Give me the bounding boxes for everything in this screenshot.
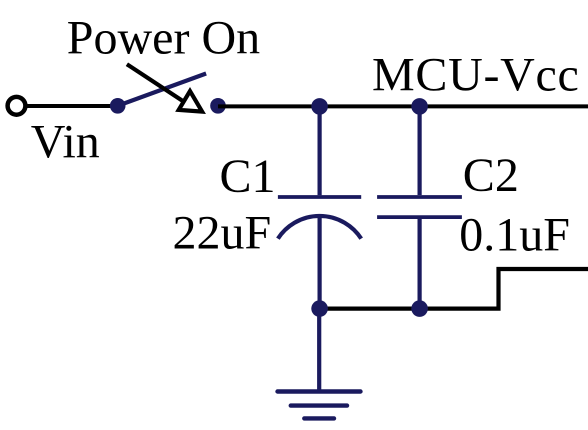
svg-text:22uF: 22uF	[173, 206, 272, 259]
junction dot C2 top	[411, 98, 428, 115]
terminal Vin	[8, 97, 26, 115]
svg-text:Vin: Vin	[31, 116, 100, 169]
switch actuation arrowhead	[179, 91, 202, 112]
switch S1 lever	[118, 74, 206, 106]
wire switch to MCU-Vcc rail	[218, 104, 588, 108]
svg-text:C2: C2	[463, 149, 519, 202]
junction dot C2 bottom	[411, 300, 428, 317]
wire ground bus with step to right edge	[320, 269, 588, 309]
svg-text:Power On: Power On	[67, 12, 260, 65]
wire Vin to switch	[25, 104, 118, 108]
svg-text:0.1uF: 0.1uF	[459, 209, 570, 262]
capacitor C1	[278, 104, 361, 309]
wire C1 to ground	[317, 309, 321, 392]
ground	[278, 392, 361, 419]
svg-text:C1: C1	[220, 150, 276, 203]
svg-text:MCU-Vcc: MCU-Vcc	[372, 49, 580, 102]
switch contact dot right	[210, 98, 226, 114]
switch actuation arrow shaft	[127, 64, 184, 102]
junction dot C1 bottom	[311, 300, 328, 317]
junction dot C1 top	[311, 98, 328, 115]
switch contact dot left	[110, 98, 126, 114]
capacitor C2	[377, 104, 462, 309]
